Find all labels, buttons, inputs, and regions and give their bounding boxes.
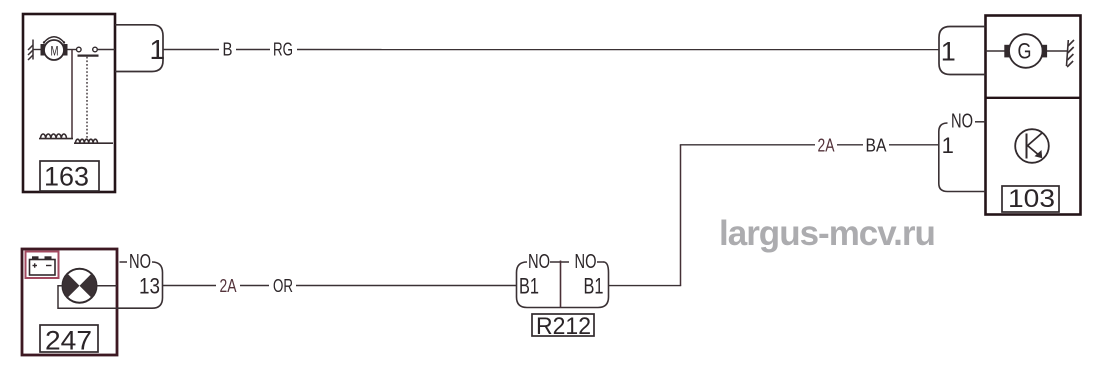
battery icon red frame (247) — [26, 252, 59, 279]
svg-text:1: 1 — [942, 133, 954, 158]
svg-text:B: B — [223, 40, 233, 60]
wire lamp loop (bottom) — [58, 286, 117, 309]
wire motor to switch terminals — [68, 49, 77, 51]
wire generator to ground — [1047, 50, 1068, 52]
ground (inside 163) — [28, 40, 33, 61]
warning lamp (247) — [63, 269, 97, 303]
svg-text:NO: NO — [528, 251, 550, 273]
wire B - RG (top) — [163, 49, 940, 51]
label box 103 — [1002, 185, 1059, 213]
svg-text:largus-mcv.ru: largus-mcv.ru — [719, 214, 935, 253]
svg-text:R212: R212 — [536, 313, 591, 340]
component box 247 (instrument cluster) — [22, 249, 117, 355]
svg-text:OR: OR — [273, 276, 293, 296]
component box 163 (wiper motor unit) — [23, 14, 115, 192]
wire terminal to box edge — [97, 49, 115, 51]
svg-text:2A: 2A — [220, 276, 237, 296]
wire ground to motor — [33, 49, 41, 51]
vertical wire from junction down to left coil — [71, 50, 73, 139]
svg-text:BA: BA — [866, 136, 887, 156]
svg-text:RG: RG — [273, 40, 293, 60]
svg-text:1: 1 — [150, 34, 166, 65]
divider line (103) — [986, 97, 1081, 99]
terminal contact right (163 switch) — [93, 47, 98, 52]
svg-text:13: 13 — [139, 274, 160, 299]
svg-text:NO: NO — [129, 251, 151, 273]
dotted mechanical link — [86, 57, 88, 140]
svg-text:103: 103 — [1008, 185, 1055, 213]
generator G (103) — [986, 34, 1048, 68]
riser wire — [680, 145, 682, 286]
svg-text:G: G — [1018, 39, 1032, 64]
component box 103 (generator) — [986, 16, 1081, 215]
svg-text:1: 1 — [941, 37, 956, 67]
connector pin tab 1 (103) — [939, 27, 986, 75]
ground (103) — [1067, 40, 1075, 67]
coil right (163) — [74, 139, 113, 143]
wire R212 to riser — [609, 285, 682, 287]
svg-text:NO: NO — [951, 111, 973, 133]
motor M (163) — [41, 37, 68, 60]
connector NO pin 13 (247) — [117, 251, 163, 308]
connector NO pin 1 (103) — [939, 111, 986, 192]
connector pin tab 1 (163) — [115, 25, 165, 72]
svg-text:2A: 2A — [818, 136, 835, 156]
svg-text:M: M — [51, 44, 59, 59]
connector R212 — [517, 251, 609, 308]
battery icon (247) — [30, 256, 56, 275]
switch bar (163) — [78, 54, 99, 56]
svg-text:163: 163 — [44, 162, 89, 192]
terminal contact left (163 switch) — [77, 47, 82, 52]
wire 2A - OR (bottom) — [163, 285, 517, 287]
label box 163 — [40, 161, 99, 192]
coil left (163) — [39, 134, 73, 139]
svg-text:247: 247 — [45, 326, 92, 356]
svg-text:B1: B1 — [519, 274, 539, 299]
svg-text:NO: NO — [575, 251, 597, 273]
svg-text:B1: B1 — [584, 274, 604, 299]
wire lamp to box edge (right) — [96, 285, 117, 287]
label box R212 — [532, 313, 594, 340]
ignition indicator K (103) — [1015, 129, 1049, 163]
label box 247 — [40, 325, 98, 356]
wire 2A - BA (middle) — [680, 144, 939, 146]
